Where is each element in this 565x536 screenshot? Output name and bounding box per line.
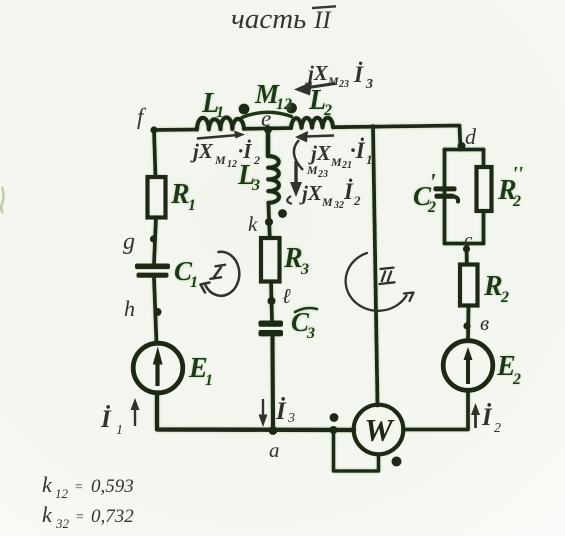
svg-text:M: M [306, 163, 318, 177]
wire: R1 to g to C1 [154, 218, 156, 265]
svg-text:ℓ: ℓ [282, 284, 291, 308]
svg-text:İ: İ [275, 397, 287, 425]
svg-text:İ: İ [100, 405, 112, 433]
current I2 with up arrow [471, 403, 501, 436]
wire: mid vertical from top wire to W top [373, 126, 378, 406]
loop I arrow [201, 252, 240, 296]
svg-text:0,732: 0,732 [91, 506, 134, 527]
svg-text:часть: часть [231, 3, 306, 35]
wire: L1 to L2 through node e [244, 126, 291, 131]
title "часть II" [231, 3, 336, 35]
label E1 [188, 353, 213, 389]
node l [268, 297, 276, 305]
label L3 [237, 160, 260, 194]
wattmeter polarity dot lower [392, 457, 402, 467]
inductor L2 [291, 118, 333, 128]
svg-text:1: 1 [216, 104, 224, 121]
svg-text:a: a [269, 438, 280, 462]
svg-text:İ: İ [343, 178, 354, 204]
svg-text:e: e [261, 106, 271, 131]
coupling dot L2 [286, 103, 297, 114]
svg-text:g: g [123, 229, 135, 255]
label C1 [174, 256, 198, 291]
svg-text:2: 2 [494, 421, 501, 436]
source E1 [133, 343, 183, 393]
svg-text:M: M [327, 74, 339, 88]
svg-text:·İ: ·İ [238, 139, 252, 163]
wire: R2'' to box bottom [482, 211, 486, 244]
svg-text:İ: İ [353, 61, 364, 87]
capacitor C3 plates [259, 321, 284, 327]
svg-text:R: R [170, 179, 190, 210]
svg-text:jX: jX [305, 61, 329, 85]
wattmeter junction dot [330, 426, 338, 434]
svg-text:2: 2 [253, 153, 260, 167]
label C2' [413, 170, 436, 216]
wire: R2 to node b to E2 [466, 306, 470, 341]
svg-text:2: 2 [500, 289, 509, 306]
wire: node e stub down [266, 129, 271, 156]
label R2 [483, 271, 509, 306]
wire: top f to L1 [154, 128, 197, 132]
svg-text:2: 2 [512, 371, 521, 388]
label jX_M23 I3 with left arrow [294, 61, 373, 96]
svg-text:c: c [464, 230, 473, 251]
svg-text:12: 12 [55, 486, 69, 501]
wire: L2 to top-right corner, down to node d [333, 126, 461, 150]
wire: node c to R2 [465, 244, 469, 265]
node f [150, 126, 157, 133]
svg-text:1: 1 [366, 152, 373, 167]
wattmeter polarity dot upper [330, 413, 339, 422]
inductor L1 [197, 118, 244, 130]
svg-text:3: 3 [300, 261, 309, 278]
svg-text:k: k [248, 212, 258, 236]
svg-text:R: R [483, 271, 503, 302]
svg-text:k: k [42, 502, 53, 527]
svg-text:3: 3 [251, 177, 260, 194]
capacitor C2' plates [434, 186, 457, 191]
svg-text:в: в [480, 311, 489, 335]
svg-text:·İ: ·İ [350, 137, 366, 163]
svg-text:12: 12 [227, 159, 237, 170]
node k [265, 218, 273, 226]
svg-text:0,593: 0,593 [91, 476, 134, 497]
label R2'' [497, 163, 524, 210]
resistor R1 [148, 177, 166, 218]
svg-text:R: R [283, 243, 303, 274]
wire: parallel box left (C2 branch) [443, 150, 447, 244]
label jX_M12 I2 with right arrow [190, 131, 260, 171]
resistor R2 [460, 265, 478, 306]
capacitor C1 plates [135, 264, 170, 270]
node c [463, 245, 470, 252]
svg-text:23: 23 [338, 79, 349, 90]
wire: parallel box top [445, 148, 484, 152]
label M12 [254, 79, 292, 113]
svg-text:M: M [330, 155, 342, 169]
resistor R2'' [477, 167, 492, 211]
current I3 with down arrow [259, 397, 296, 427]
label E2 [496, 351, 521, 388]
label C3 [291, 307, 317, 342]
svg-text:İ: İ [481, 403, 493, 431]
svg-text:1: 1 [116, 423, 123, 438]
source E2 [443, 341, 493, 391]
node e [264, 126, 272, 134]
svg-text:2: 2 [353, 193, 361, 208]
svg-text:=: = [74, 480, 83, 495]
inductor L3 [268, 156, 279, 203]
wire: left vertical f to R1 [154, 130, 156, 177]
svg-text:d: d [465, 124, 477, 149]
wire: box right top stub to R2'' [482, 150, 486, 168]
wire: C1 to h to E1 [154, 278, 157, 344]
svg-text:jX: jX [308, 141, 332, 165]
node d [458, 142, 466, 150]
svg-text:2: 2 [427, 199, 436, 216]
svg-text:'': '' [512, 163, 524, 185]
coupling coefficient k32 [42, 502, 134, 531]
wire: L3 to k to R3 [268, 203, 269, 238]
svg-text:II: II [313, 7, 332, 34]
wattmeter W [354, 405, 404, 455]
svg-text:23: 23 [317, 169, 328, 180]
M12 coupling arc [242, 112, 292, 117]
wire: parallel box bottom [445, 242, 484, 246]
label L2 [308, 85, 332, 119]
wire: wattmeter voltage loop [334, 430, 379, 471]
coupling dot L3 [278, 209, 287, 218]
svg-text:1: 1 [205, 372, 213, 389]
resistor R3 [261, 238, 280, 282]
wire: E1 bottom to corner, bottom wire to W left [157, 393, 354, 430]
coupling coefficient k12 [42, 472, 134, 501]
svg-text:2: 2 [512, 193, 521, 210]
svg-text:3: 3 [306, 325, 315, 342]
svg-text:3: 3 [287, 411, 295, 426]
label jX_M21 I1 with curved arrow [294, 131, 373, 180]
svg-text:jX: jX [190, 139, 214, 163]
svg-text:1: 1 [188, 197, 196, 214]
svg-text:k: k [42, 472, 53, 497]
svg-text:12: 12 [276, 96, 292, 113]
node a [269, 426, 278, 435]
svg-text:32: 32 [333, 200, 344, 211]
svg-text:M: M [321, 195, 333, 209]
label R1 [170, 179, 196, 214]
wire: E2 bottom to corner to W right [403, 392, 468, 430]
node h [154, 308, 162, 316]
wire: C3 to node a [270, 338, 275, 431]
svg-text:1: 1 [190, 274, 198, 291]
coupling dot L1 [239, 104, 250, 115]
svg-text:M: M [214, 153, 226, 167]
scanner edge mark [1, 187, 3, 213]
loop II arrow [346, 253, 414, 311]
wire: R3 to l to C3 [271, 282, 272, 321]
svg-text:h: h [124, 296, 135, 321]
label L1 [201, 88, 224, 121]
svg-text:=: = [75, 510, 84, 525]
svg-text:32: 32 [55, 516, 70, 531]
svg-text:3: 3 [365, 77, 373, 92]
svg-text:2: 2 [323, 102, 332, 119]
svg-text:W: W [364, 412, 395, 448]
current I1 with up arrow [100, 398, 140, 438]
label R3 [283, 243, 309, 278]
svg-text:': ' [429, 170, 436, 196]
svg-text:jX: jX [299, 181, 323, 205]
node b [463, 322, 470, 329]
label jX_M32 I2 with down arrow [287, 161, 361, 211]
node g [150, 235, 157, 242]
